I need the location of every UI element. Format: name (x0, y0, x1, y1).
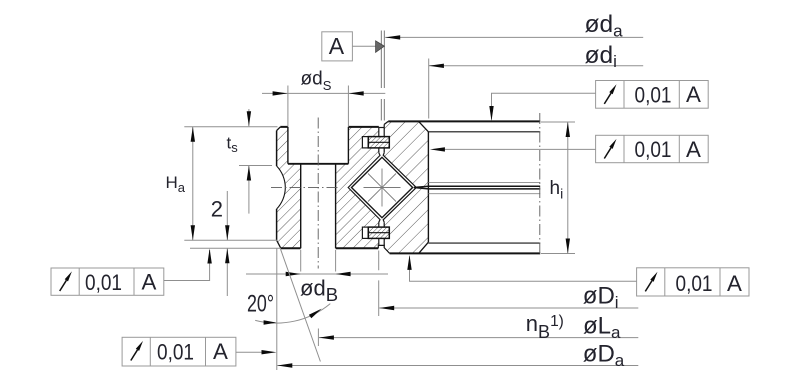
svg-text:0,01: 0,01 (157, 339, 194, 364)
roller (diamond) (352, 157, 413, 217)
dimension h_i line (567, 122, 569, 254)
dimension ød_a line (385, 36, 643, 38)
svg-text:ødi: ødi (585, 42, 617, 71)
dimension H_a line (192, 127, 194, 241)
extension line at ring bottom (190, 247, 281, 249)
dimension t_s upper (248, 109, 250, 126)
leader BR (410, 256, 637, 281)
øL_a label line (319, 337, 638, 339)
øD_a label line (277, 365, 638, 367)
dimension ød_a arrow (385, 35, 400, 39)
svg-text:0,01: 0,01 (635, 137, 672, 162)
plug bottom: notch (362, 227, 368, 238)
plug top: block (368, 137, 389, 148)
svg-text:A: A (213, 339, 228, 364)
plug top: notch (362, 137, 368, 148)
svg-text:A: A (686, 82, 701, 107)
svg-text:ødS: ødS (301, 69, 332, 94)
outer ring split line (414, 186, 540, 189)
svg-text:20°: 20° (247, 290, 274, 317)
outer ring outline (378, 121, 540, 253)
datum A leader and triangle (352, 45, 375, 47)
centerline mid horizontal (271, 186, 338, 188)
svg-text:0,01: 0,01 (635, 82, 672, 107)
øL_a extension line (317, 329, 319, 347)
øD_i label line (379, 307, 638, 309)
leader TR1 (492, 93, 596, 119)
split chamfer edges on bore (428, 182, 540, 193)
dimension ød_i arrow (429, 64, 444, 68)
svg-text:0,01: 0,01 (676, 271, 713, 296)
dimension 2 upper (226, 191, 228, 240)
dimension t_s lower (248, 166, 250, 214)
leader BL-A (164, 250, 210, 281)
inner ring gap-side edges and raceway V (348, 127, 384, 248)
20° slant contact line (280, 248, 320, 361)
20° arc arrows (264, 320, 277, 325)
svg-text:2: 2 (211, 197, 223, 222)
øD_i extension line (378, 251, 380, 317)
dimension ød_S extension lines (288, 86, 349, 127)
dimension ød_B line (246, 273, 388, 275)
svg-text:A: A (686, 137, 701, 162)
svg-text:A: A (727, 271, 742, 296)
inner ring hatched section left column (277, 127, 301, 248)
roller crosshair (364, 169, 401, 207)
20° vertical reference line (276, 249, 278, 371)
centerline bolt hole (317, 118, 319, 269)
dimension h_i extension lines (541, 121, 575, 123)
t_s lower extension line (239, 165, 272, 167)
tolerance frame bottom-left B (122, 337, 236, 366)
svg-text:hi: hi (550, 178, 564, 202)
svg-text:øLa: øLa (583, 312, 621, 342)
svg-text:0,01: 0,01 (85, 270, 122, 295)
20° arc (255, 304, 330, 324)
centerline axis right (539, 113, 541, 257)
tolerance frame bottom-right (637, 268, 749, 296)
inner ring hatched section right part (336, 127, 380, 248)
dimension ød_B extension lines (300, 250, 302, 272)
dimension ød_S arrows (273, 91, 288, 95)
dimension ød_S line (262, 92, 385, 94)
svg-text:ødB: ødB (300, 276, 338, 305)
svg-text:A: A (142, 270, 157, 295)
dimension 2 lower (226, 248, 228, 296)
leader TR2 (443, 148, 596, 150)
tolerance frame top-right 1 (596, 81, 709, 109)
svg-text:ts: ts (227, 134, 239, 156)
leader BL-B (236, 351, 263, 353)
dimension ød_i extension (428, 59, 430, 119)
inner ring outline (277, 127, 379, 248)
tolerance frame top-right 2 (596, 135, 709, 162)
svg-text:øDi: øDi (583, 283, 619, 312)
svg-text:øDa: øDa (583, 340, 625, 370)
svg-text:A: A (329, 33, 345, 59)
datum/ød_a extension pair (381, 31, 384, 121)
dimension H_a extension lines (184, 126, 277, 128)
datum A box (322, 32, 353, 61)
svg-text:Ha: Ha (166, 173, 186, 195)
plug bottom: block (368, 227, 389, 238)
svg-text:øda: øda (585, 11, 624, 40)
outer ring hatched section (383, 121, 428, 253)
dimension ød_i line (429, 65, 643, 67)
tolerance frame bottom-left A (51, 268, 164, 295)
